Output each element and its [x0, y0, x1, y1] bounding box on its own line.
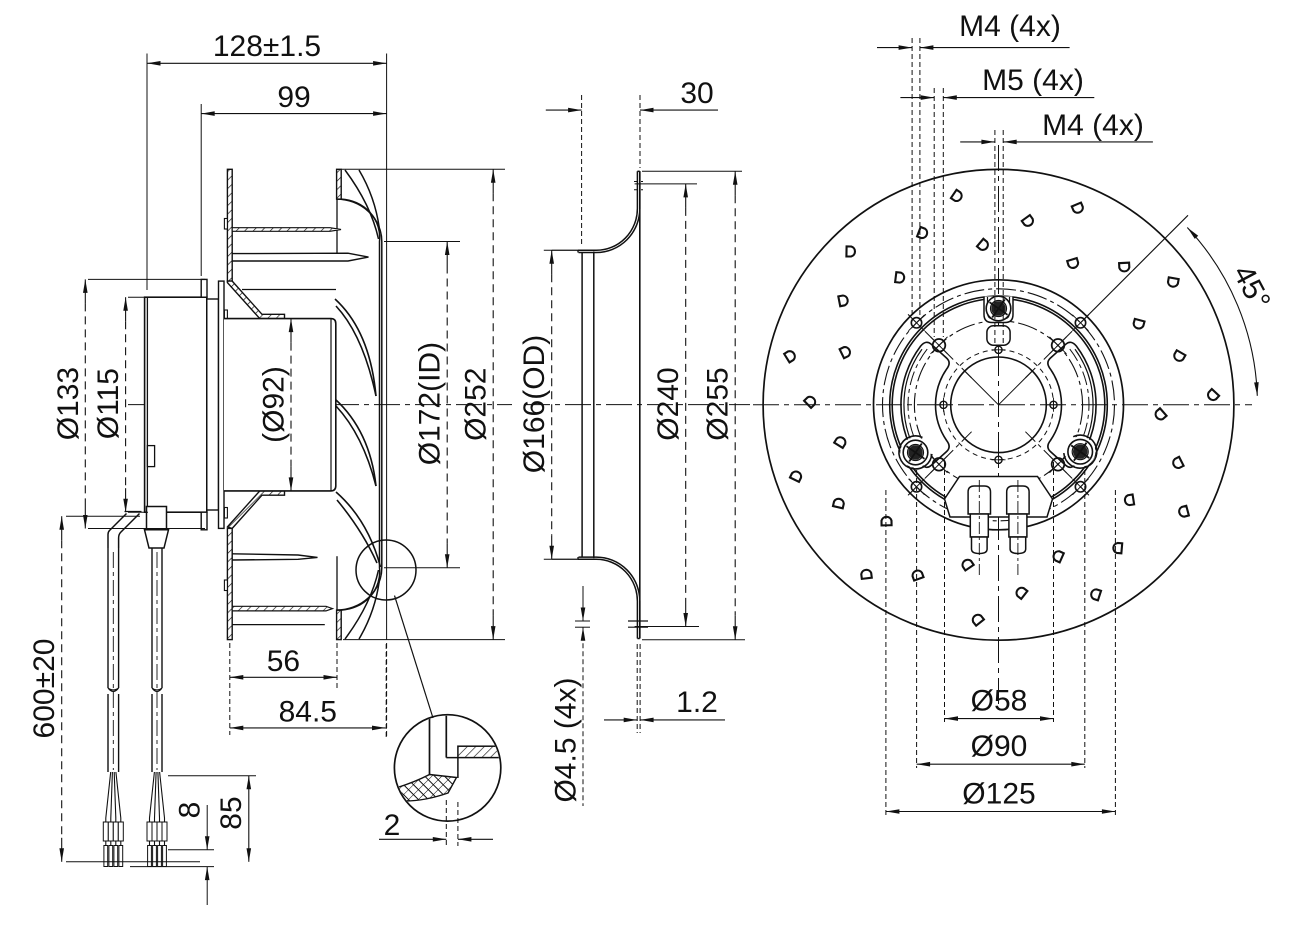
svg-text:2: 2: [384, 809, 401, 842]
svg-text:Ø133: Ø133: [52, 367, 85, 440]
svg-text:85: 85: [215, 796, 248, 829]
svg-text:Ø252: Ø252: [460, 368, 493, 441]
svg-text:30: 30: [680, 77, 713, 110]
svg-text:(Ø92): (Ø92): [258, 366, 291, 443]
svg-text:Ø115: Ø115: [92, 368, 125, 439]
svg-text:Ø125: Ø125: [962, 778, 1035, 811]
svg-text:8: 8: [174, 802, 207, 819]
svg-text:600±20: 600±20: [28, 639, 61, 739]
svg-text:Ø240: Ø240: [652, 367, 685, 440]
svg-text:Ø166(OD): Ø166(OD): [518, 335, 551, 473]
svg-text:Ø172(ID): Ø172(ID): [414, 342, 447, 465]
svg-text:M4 (4x): M4 (4x): [959, 10, 1061, 43]
svg-text:Ø90: Ø90: [971, 730, 1028, 763]
svg-text:Ø58: Ø58: [971, 685, 1028, 718]
svg-text:99: 99: [277, 81, 310, 114]
svg-text:Ø4.5 (4x): Ø4.5 (4x): [550, 677, 583, 802]
svg-text:M5 (4x): M5 (4x): [982, 64, 1084, 97]
svg-text:84.5: 84.5: [279, 696, 337, 729]
svg-text:128±1.5: 128±1.5: [213, 30, 321, 63]
svg-text:M4 (4x): M4 (4x): [1042, 109, 1144, 142]
svg-text:Ø255: Ø255: [702, 367, 735, 440]
svg-text:56: 56: [267, 645, 300, 678]
svg-text:1.2: 1.2: [676, 686, 718, 719]
